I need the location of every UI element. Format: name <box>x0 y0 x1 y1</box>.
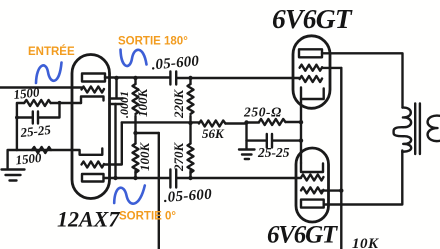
svg-text:6V6GT: 6V6GT <box>267 222 339 249</box>
svg-text:.05-600: .05-600 <box>163 187 213 206</box>
svg-text:.0001: .0001 <box>117 91 131 118</box>
svg-text:220K: 220K <box>171 89 186 120</box>
svg-text:100K: 100K <box>137 142 152 172</box>
svg-text:1500: 1500 <box>15 150 43 168</box>
svg-text:270K: 270K <box>171 142 186 173</box>
svg-text:.05-600: .05-600 <box>151 53 200 73</box>
svg-text:100K: 100K <box>135 88 150 118</box>
svg-text:ENTRÉE: ENTRÉE <box>28 45 75 58</box>
svg-text:6V6GT: 6V6GT <box>272 3 353 34</box>
svg-text:25-25: 25-25 <box>257 145 290 160</box>
svg-text:SORTIE 180°: SORTIE 180° <box>118 36 188 48</box>
svg-text:12AX7: 12AX7 <box>57 207 120 232</box>
svg-text:25-25: 25-25 <box>19 122 52 140</box>
svg-text:250-Ω: 250-Ω <box>243 105 282 120</box>
svg-text:56K: 56K <box>202 126 225 141</box>
svg-text:10K: 10K <box>352 236 379 249</box>
svg-text:SORTIE 0°: SORTIE 0° <box>119 211 176 223</box>
svg-text:1500: 1500 <box>13 84 41 102</box>
